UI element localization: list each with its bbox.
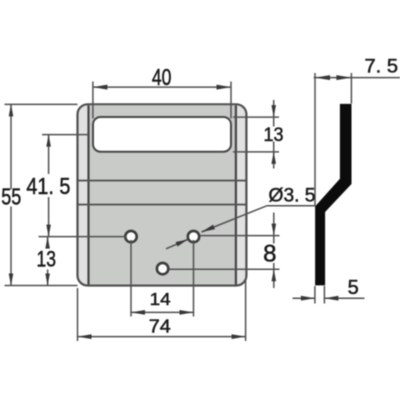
dimension 7.5 <box>314 73 400 206</box>
svg-text:5: 5 <box>348 277 359 299</box>
dimension 55 <box>5 104 78 285</box>
hole bottom center <box>157 263 168 274</box>
plate right hem line <box>235 105 237 284</box>
dimension 74 <box>78 279 246 341</box>
slot <box>93 117 231 152</box>
dimension 8 <box>169 213 280 289</box>
svg-text:13: 13 <box>37 247 57 272</box>
svg-text:7. 5: 7. 5 <box>365 56 399 78</box>
svg-text:Ø3. 5: Ø3. 5 <box>269 185 316 207</box>
svg-text:40: 40 <box>152 64 172 90</box>
dimension 40 <box>93 82 231 119</box>
svg-text:13: 13 <box>264 124 284 146</box>
svg-text:14: 14 <box>150 289 171 309</box>
plate left hem line <box>87 105 89 284</box>
svg-text:74: 74 <box>149 316 171 337</box>
side view Z profile <box>315 104 351 286</box>
upper bend line <box>78 180 245 182</box>
dimension 5 <box>293 286 365 304</box>
dimension 13 lower left <box>39 237 127 286</box>
svg-text:8: 8 <box>263 241 276 268</box>
plate outer outline (front view) <box>78 104 247 285</box>
svg-text:41. 5: 41. 5 <box>26 173 70 199</box>
dimension 41.5 <box>42 135 89 237</box>
svg-text:55: 55 <box>1 184 21 210</box>
dimension 14 <box>131 240 194 317</box>
leader diameter 3.5 <box>166 206 315 249</box>
dimension 13 slot height <box>233 100 279 169</box>
plate inner face <box>89 105 236 284</box>
lower bend line <box>78 204 245 206</box>
hole left <box>125 231 136 242</box>
hole right <box>188 231 199 242</box>
